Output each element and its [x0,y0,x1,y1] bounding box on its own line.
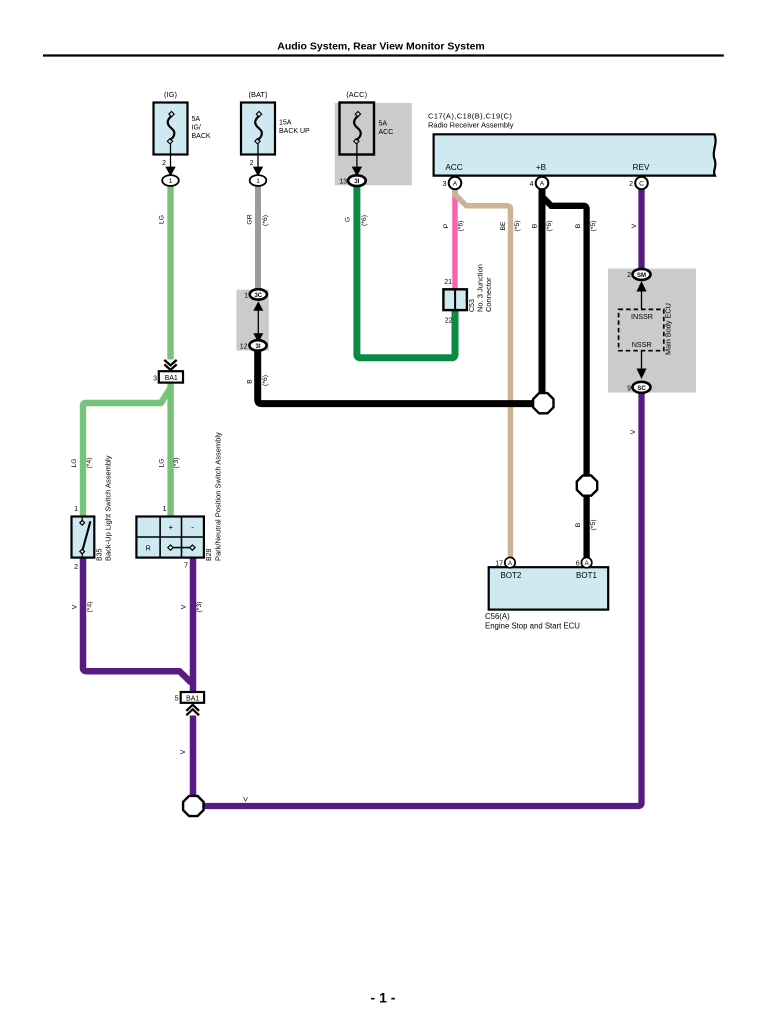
wire B branch from +B to splice octagon 2 [542,197,597,476]
svg-text:B: B [575,522,582,527]
svg-text:2: 2 [629,181,633,188]
svg-text:V: V [180,749,187,754]
fuse IG [154,90,211,186]
connector 1 (BAT) [250,175,267,186]
svg-text:5A: 5A [379,121,388,128]
svg-text:12: 12 [240,344,248,351]
fuse IG pin 2 lead [170,143,172,173]
arrow between 3C and 3I [253,301,263,343]
fuse BAT body [241,103,275,155]
svg-text:BOT2: BOT2 [500,571,521,580]
fuse BAT pin 2 lead [257,143,259,173]
svg-text:(*6): (*6) [262,375,269,386]
svg-text:(*3): (*3) [196,602,203,613]
svg-text:P: P [443,223,450,228]
svg-text:Park/Neutral Position Switch A: Park/Neutral Position Switch Assembly [214,432,223,561]
Main Body ECU block [619,269,673,393]
svg-text:BA1: BA1 [165,375,178,382]
svg-text:1: 1 [244,293,248,300]
svg-text:BACK UP: BACK UP [279,128,310,135]
svg-text:2: 2 [162,160,166,167]
fuse ACC [339,90,393,186]
svg-text:Main Body ECU: Main Body ECU [664,303,673,355]
svg-text:(*5): (*5) [514,221,521,232]
park/neutral position switch assembly B28 [136,432,222,570]
wire G from fuse ACC to junction connector C53 pin 22 [345,186,455,358]
connector BA1 (5) [175,692,205,715]
svg-text:3I: 3I [255,344,260,350]
connector 3C (BAT feed) [244,289,267,299]
svg-text:17: 17 [495,561,503,568]
wire LG from BA1 to B28 pin 1 [159,383,181,517]
svg-text:2: 2 [627,272,631,279]
radio pin 2 (C) REV [629,177,648,190]
svg-text:Radio Receiver Assembly: Radio Receiver Assembly [428,121,514,130]
svg-text:1: 1 [74,506,78,513]
svg-text:B: B [575,223,582,228]
svg-text:V: V [631,223,638,228]
svg-text:C17(A),C18(B),C19(C): C17(A),C18(B),C19(C) [428,112,512,121]
svg-text:Audio System, Rear View Monito: Audio System, Rear View Monitor System [277,41,485,53]
svg-text:1: 1 [163,506,167,513]
gray background of ACC fuse block [335,103,412,185]
wire LG from fuse IG to connector BA1 [159,186,171,360]
svg-text:SM: SM [637,273,646,279]
svg-text:1: 1 [256,178,260,185]
fuse ACC pin 13 lead [356,143,358,173]
svg-text:(*6): (*6) [262,215,269,226]
svg-text:Engine Stop and Start ECU: Engine Stop and Start ECU [485,622,580,631]
svg-text:6: 6 [576,561,580,568]
svg-text:A: A [540,181,545,188]
gray background of 3C/3I junction connector block [236,290,268,351]
svg-text:B: B [531,223,538,228]
wire BE from radio ACC terminal to BOT2 [455,189,521,558]
ECU pin 6 (A) BOT1 [576,557,592,567]
svg-text:A: A [453,181,458,188]
engine stop and start ECU C56(A) [485,567,608,630]
connector 3I (to splice) [240,340,267,350]
gray background of Main Body ECU [608,269,696,393]
wire LG from BA1 to B35 pin 1 [71,388,171,517]
svg-text:LG: LG [71,458,78,467]
svg-text:A: A [508,561,512,567]
svg-text:SC: SC [637,386,646,392]
svg-text:Connector: Connector [484,277,493,312]
svg-text:2: 2 [74,564,78,571]
svg-text:C: C [639,181,644,188]
splice octagon 1 [533,393,553,413]
svg-text:ACC: ACC [379,129,394,136]
ECU pin 17 (A) BOT2 [495,557,515,567]
radio pin 4 (A) +B [530,177,549,190]
svg-text:IG/: IG/ [192,125,201,132]
wire V from Main Body ECU SC down and across to splice octagon 3 [205,392,642,806]
svg-text:R: R [146,544,151,553]
splice octagon 2 [577,476,597,496]
svg-text:B: B [247,379,254,384]
svg-text:V: V [243,797,248,804]
wire V from B35 pin 2 joining vertical wire to BA1 [71,558,191,683]
svg-text:(BAT): (BAT) [248,90,268,99]
svg-text:4: 4 [530,181,534,188]
svg-text:B28: B28 [206,548,213,561]
svg-text:1: 1 [169,178,173,185]
svg-text:3C: 3C [254,293,262,299]
svg-text:9: 9 [627,386,631,393]
wire B from radio +B terminal down to splice octagon 1 [531,189,553,392]
svg-text:BACK: BACK [192,133,211,140]
wire B from connector 3I to splice octagon 1 [247,351,533,404]
svg-text:3: 3 [153,376,157,383]
svg-text:Back-Up Light Switch Assembly: Back-Up Light Switch Assembly [104,455,113,561]
fuse BAT [241,90,310,186]
svg-text:V: V [71,604,78,609]
svg-text:A: A [585,561,589,567]
wire B from splice octagon 2 to BOT1 [575,497,597,558]
svg-text:BA1: BA1 [186,695,199,702]
svg-text:-: - [191,523,194,532]
svg-text:(*6): (*6) [361,215,368,226]
splice octagon 3 [183,796,203,816]
svg-text:(ACC): (ACC) [346,90,367,99]
svg-text:13: 13 [339,179,347,186]
svg-text:5A: 5A [192,116,201,123]
svg-text:(*3): (*3) [173,458,180,469]
svg-text:LG: LG [159,458,166,467]
fuse IG body [154,103,188,155]
svg-text:REV: REV [633,163,650,172]
svg-text:BE: BE [500,221,507,231]
svg-text:V: V [630,429,637,434]
connector 1 (IG) [162,175,179,186]
svg-text:5: 5 [175,696,179,703]
svg-text:ACC: ACC [445,163,462,172]
svg-text:+: + [168,523,173,532]
svg-text:- 1 -: - 1 - [371,990,396,1006]
svg-text:21: 21 [444,279,452,286]
svg-text:NSSR: NSSR [632,340,652,349]
wire GR from fuse BAT to connector 3C [246,186,268,290]
title: Audio System, Rear View Monitor System [43,41,724,56]
svg-text:(*6): (*6) [457,221,464,232]
svg-text:B35: B35 [97,548,104,561]
svg-text:(*6): (*6) [546,221,553,232]
back-up light switch assembly B35 [72,455,113,571]
svg-text:G: G [345,217,352,222]
svg-text:GR: GR [246,214,253,224]
svg-text:(IG): (IG) [164,90,177,99]
svg-text:7: 7 [184,563,188,570]
svg-text:LG: LG [159,215,166,224]
svg-text:3I: 3I [354,179,359,185]
svg-text:(*5): (*5) [590,221,597,232]
svg-text:C56(A): C56(A) [485,612,510,621]
svg-text:2: 2 [250,160,254,167]
svg-text:BOT1: BOT1 [576,571,597,580]
fuse ACC body [340,103,375,155]
wire V from radio REV terminal to Main Body ECU SM [631,189,641,269]
svg-text:V: V [181,604,188,609]
radio receiver assembly C17(A),C18(B),C19(C) [428,112,716,176]
svg-text:(*4): (*4) [86,458,93,469]
svg-text:3: 3 [443,181,447,188]
svg-text:(*4): (*4) [87,602,94,613]
svg-text:15A: 15A [279,120,292,127]
radio pin 3 (A) ACC [443,177,462,190]
svg-text:(*5): (*5) [590,520,597,531]
connector BA1 (3) [153,360,183,383]
svg-text:INSSR: INSSR [631,312,653,321]
svg-text:+B: +B [536,163,547,172]
junction connector C53 [443,264,493,324]
wire V from B28 pin 7 to connector BA1 (5) [181,558,204,692]
wire V from BA1 (5) to splice octagon 3 [180,716,193,796]
wire P from radio ACC terminal to junction connector C53 pin 21 [443,189,464,289]
connector 3I (ACC fuse output) [348,175,366,186]
svg-text:22: 22 [445,318,453,325]
